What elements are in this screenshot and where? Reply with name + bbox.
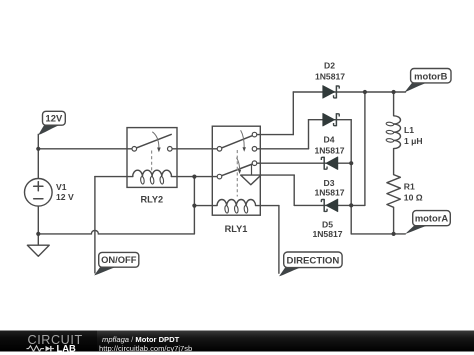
svg-text:1N5817: 1N5817 (312, 229, 342, 239)
node D2 cathode / D5 riser (363, 90, 367, 94)
wire node drop x194 (193, 177, 195, 234)
D3 labels (314, 178, 344, 198)
wire node to RLY1 pole2 common (194, 176, 217, 178)
RLY2 contact circles (132, 147, 137, 152)
svg-text:motorA: motorA (415, 213, 449, 224)
RLY2 actuation arc (152, 132, 159, 148)
voltage source V1 (25, 179, 53, 207)
svg-text:1 μH: 1 μH (404, 136, 423, 146)
node RLY2 coil / pole2 common (192, 175, 196, 179)
wire RLY2 right contact to RLY1 pole1 common (172, 148, 217, 150)
V1 labels (56, 182, 74, 202)
svg-text:RLY1: RLY1 (225, 224, 248, 234)
flag ON/OFF (94, 252, 139, 275)
RLY1 pole1 actuation arc (241, 130, 245, 148)
svg-text:L1: L1 (404, 125, 414, 135)
svg-text:1N5817: 1N5817 (314, 145, 344, 155)
relay RLY1 (212, 126, 261, 215)
RLY1 pole2 triangle contact stem (251, 164, 253, 175)
svg-text:10 Ω: 10 Ω (404, 193, 423, 203)
wire ground rail left part with hop (38, 230, 194, 233)
svg-text:motorB: motorB (414, 70, 448, 81)
node D3 anode (349, 161, 353, 165)
node 12V junction (36, 147, 40, 151)
wire bottom right rail to motorA (351, 233, 405, 235)
inductor L1 (386, 116, 401, 149)
wire D2 rail to motorB (293, 91, 405, 93)
svg-text:V1: V1 (56, 182, 67, 192)
wire R1 bottom lead (393, 207, 395, 234)
RLY1 pole2 actuation arc (236, 158, 239, 171)
svg-text:12 V: 12 V (56, 192, 74, 202)
D5 labels (312, 220, 342, 240)
node motorB / L1 (392, 90, 396, 94)
relay RLY2 (127, 128, 177, 188)
wire D4 rail (309, 119, 352, 121)
node D5 anode (349, 203, 353, 207)
wire 12V rail to RLY2 left contact (38, 148, 132, 150)
svg-text:RLY2: RLY2 (140, 195, 163, 205)
diode D4 (323, 113, 339, 126)
svg-text:D4: D4 (324, 135, 335, 145)
RLY2 coil (133, 170, 172, 176)
wire RLY1 pole2 throw2 to D5 riser (261, 174, 294, 176)
RLY1 dashed actuator (236, 150, 238, 197)
RLY2 blade (136, 134, 171, 148)
wire D3 rail (257, 162, 351, 164)
footer CircuitLab logo (27, 333, 83, 354)
wire L1 top lead (393, 92, 395, 116)
wire ON/OFF drop (94, 177, 96, 273)
svg-text:R1: R1 (404, 182, 415, 192)
svg-text:LAB: LAB (57, 343, 76, 354)
resistor R1 (387, 175, 401, 208)
wire L1 to R1 (393, 149, 395, 175)
node motorA / R1 (392, 232, 396, 236)
wire RLY2 coil left lead (95, 176, 133, 178)
wire RLY1 pole1 throw1 to D2 anode riser (257, 134, 294, 136)
L1 labels (404, 125, 423, 146)
flag motorA (405, 211, 450, 234)
svg-text:1N5817: 1N5817 (314, 187, 344, 197)
svg-text:D3: D3 (324, 178, 335, 188)
wire RLY2 coil right to node (171, 176, 194, 178)
svg-text:mpflaga / Motor DPDT: mpflaga / Motor DPDT (102, 335, 180, 344)
RLY1 coil (217, 199, 256, 205)
diode D5 (321, 199, 337, 212)
svg-text:1N5817: 1N5817 (315, 71, 345, 81)
wire D5 cathode riser (293, 175, 295, 205)
wire D4 anode riser (308, 120, 310, 149)
wire D5 rail up to D2 rail (364, 92, 366, 205)
svg-text:http://circuitlab.com/cy7j7sb: http://circuitlab.com/cy7j7sb (99, 344, 192, 353)
flag DIRECTION (279, 252, 342, 276)
wire V1 bottom to ground node (37, 206, 39, 234)
svg-text:D5: D5 (322, 220, 333, 230)
RLY1 contact circles (217, 147, 222, 152)
RLY1 pole2 blade (222, 164, 253, 176)
wire D5 rail (294, 204, 365, 206)
svg-text:12V: 12V (46, 113, 63, 124)
diode D3 (321, 157, 337, 170)
wire node to RLY1 coil left (194, 205, 217, 207)
wire D4 cathode drop (350, 120, 352, 234)
footer bar (0, 331, 474, 352)
D2 labels (315, 61, 345, 82)
footer text (99, 335, 192, 353)
RLY1 pole2 triangle contact (241, 175, 261, 185)
RLY1 pole1 blade (222, 136, 253, 148)
node ground junction (36, 232, 40, 236)
D4 labels (314, 135, 344, 156)
wire RLY1 coil right to DIRECTION corner (256, 205, 279, 207)
ground (27, 245, 49, 256)
diode D2 (323, 85, 339, 98)
svg-text:DIRECTION: DIRECTION (287, 255, 340, 266)
node RLY1 coil left (192, 204, 196, 208)
wire ground node to ground symbol (37, 234, 39, 245)
wire node to V1 top (37, 149, 39, 179)
svg-text:D2: D2 (324, 61, 335, 71)
flag 12V (38, 111, 65, 135)
wire 12V flag stem to node (37, 134, 39, 149)
RLY2 dashed actuator (151, 151, 153, 171)
R1 labels (404, 182, 423, 203)
wire RLY1 pole1 throw2 to D4 anode riser (257, 148, 309, 150)
svg-text:ON/OFF: ON/OFF (101, 254, 137, 265)
wire D2 anode riser (292, 92, 294, 135)
wire DIRECTION drop (278, 206, 280, 274)
flag motorB (405, 69, 451, 93)
